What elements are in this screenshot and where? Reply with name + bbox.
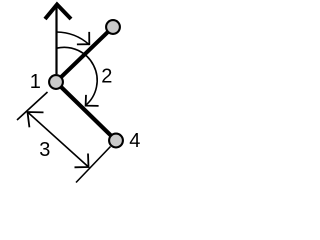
extension line from node 1 <box>17 92 48 120</box>
node top-right <box>106 20 120 34</box>
arc angle 2 arrowhead <box>86 95 99 106</box>
wire line 1 to node 4 (thick) <box>56 82 116 141</box>
node 4 (target) <box>109 134 123 148</box>
extension line from node 4 <box>76 147 111 183</box>
north arrowhead <box>45 5 71 20</box>
wire line 1 to top-right node (thick) <box>56 27 113 82</box>
dimension arrowhead lower-right <box>75 154 89 168</box>
wire north-arrow shaft <box>55 7 57 74</box>
node 1 (station) <box>49 75 63 89</box>
dimension arrowhead upper-left <box>28 112 44 127</box>
svg-text:3: 3 <box>39 139 50 161</box>
dimension line 3 <box>28 112 89 167</box>
svg-text:2: 2 <box>101 65 112 87</box>
arc small arrowhead <box>77 32 89 45</box>
arc angle 2 <box>57 47 98 105</box>
svg-text:1: 1 <box>30 71 41 93</box>
arc small (angle to top-right) <box>56 32 89 45</box>
svg-text:4: 4 <box>129 130 140 152</box>
